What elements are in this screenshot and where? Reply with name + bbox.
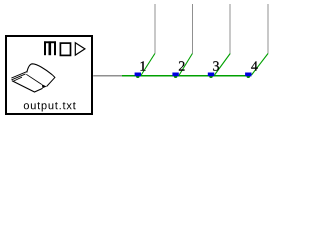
- icon: double bars: [44, 41, 56, 55]
- tap 1: blue square: [135, 73, 141, 77]
- book icon: curled corner flap: [47, 75, 55, 87]
- book icon: spine diagonal: [26, 74, 42, 84]
- book icon: top arc: [27, 64, 53, 75]
- tap 4: blue square: [245, 73, 251, 77]
- tap 1: diagonal: [141, 54, 155, 76]
- tap 1: number 1: [141, 61, 146, 70]
- icon: square: [60, 43, 70, 55]
- tap 4: vertical line: [267, 4, 269, 54]
- tap 3: junction dot: [209, 74, 213, 78]
- book icon: bottom outline: [12, 81, 43, 92]
- tap 4: diagonal: [252, 54, 269, 76]
- tap 2: number 2: [179, 61, 185, 70]
- tap 3: diagonal: [215, 54, 231, 76]
- tap 2: blue square: [172, 73, 178, 77]
- tap 2: diagonal: [179, 54, 192, 76]
- tap 1: vertical line: [154, 4, 156, 54]
- tap 3: blue square: [208, 73, 214, 77]
- tap 4: number 4: [251, 61, 258, 70]
- tap 3: number 3: [213, 61, 219, 70]
- tap 2: junction dot: [174, 74, 178, 78]
- book icon: left page hatches: [11, 72, 27, 82]
- wire: green segment: [122, 75, 251, 77]
- tap 3: vertical line: [229, 4, 231, 54]
- tap 2: vertical line: [191, 4, 193, 54]
- wire: gray segment from box: [93, 75, 122, 77]
- tap 4: junction dot: [247, 74, 251, 78]
- actor box output.txt: [6, 36, 92, 114]
- label output.txt: [24, 102, 76, 111]
- icon: play triangle: [75, 43, 85, 55]
- book icon: pen nib triangle: [42, 84, 47, 88]
- tap 1: junction dot: [136, 74, 140, 78]
